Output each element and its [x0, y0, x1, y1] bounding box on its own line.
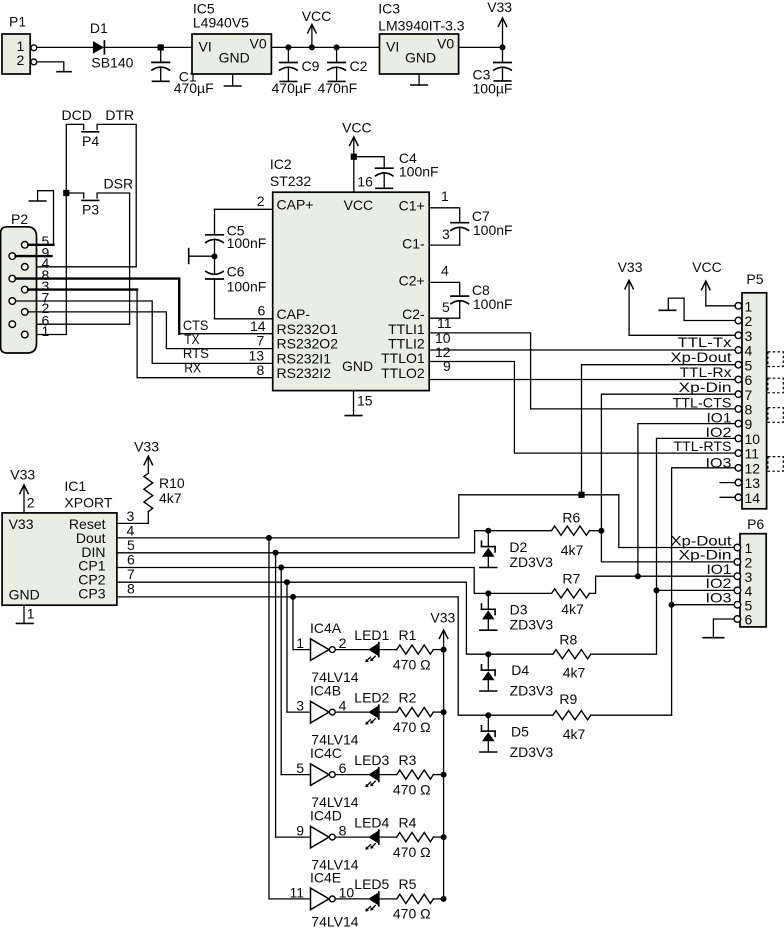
svg-text:V33: V33 [134, 438, 159, 454]
svg-text:4: 4 [745, 343, 753, 359]
svg-text:D2: D2 [509, 539, 527, 555]
svg-text:4k7: 4k7 [563, 665, 586, 681]
svg-text:8: 8 [339, 823, 347, 839]
svg-text:V0: V0 [250, 36, 267, 52]
svg-text:RS232O1: RS232O1 [277, 321, 339, 337]
svg-text:IC4A: IC4A [310, 620, 342, 636]
svg-text:P5: P5 [746, 271, 763, 287]
svg-text:C1+: C1+ [399, 198, 425, 214]
svg-text:IC1: IC1 [64, 478, 86, 494]
svg-text:470µF: 470µF [272, 80, 312, 96]
svg-text:R6: R6 [562, 510, 580, 526]
svg-text:2: 2 [745, 313, 753, 329]
svg-text:7: 7 [257, 333, 265, 349]
svg-text:4k7: 4k7 [561, 542, 584, 558]
svg-text:RX: RX [184, 359, 202, 375]
svg-text:GND: GND [342, 358, 373, 374]
svg-text:IC4D: IC4D [310, 808, 342, 824]
svg-text:L4940V5: L4940V5 [193, 14, 249, 30]
svg-text:470 Ω: 470 Ω [393, 844, 431, 860]
svg-text:5: 5 [745, 357, 753, 373]
svg-text:9: 9 [296, 823, 304, 839]
svg-text:8: 8 [257, 362, 265, 378]
svg-text:13: 13 [745, 475, 761, 491]
svg-text:14: 14 [250, 318, 266, 334]
svg-text:5: 5 [442, 299, 450, 315]
svg-text:TTLO2: TTLO2 [381, 365, 425, 381]
svg-text:470 Ω: 470 Ω [393, 719, 431, 735]
svg-text:TTL-CTS: TTL-CTS [673, 394, 732, 410]
svg-text:3: 3 [127, 508, 135, 524]
svg-text:C2+: C2+ [399, 273, 425, 289]
svg-text:V33: V33 [10, 466, 35, 482]
svg-text:D3: D3 [510, 602, 528, 618]
svg-text:8: 8 [127, 581, 135, 597]
svg-text:1: 1 [296, 635, 304, 651]
svg-text:CAP-: CAP- [277, 306, 311, 322]
svg-text:GND: GND [219, 49, 250, 65]
svg-text:TTLO1: TTLO1 [381, 350, 425, 366]
svg-text:R4: R4 [399, 814, 417, 830]
svg-text:VCC: VCC [344, 197, 374, 213]
svg-text:11: 11 [437, 315, 452, 331]
svg-text:IO1: IO1 [707, 409, 732, 425]
svg-text:100nF: 100nF [399, 163, 439, 179]
svg-text:3: 3 [745, 328, 753, 344]
svg-text:R8: R8 [559, 631, 577, 647]
svg-text:P2: P2 [11, 211, 28, 227]
svg-text:V0: V0 [437, 36, 454, 52]
svg-text:TTL-Rx: TTL-Rx [680, 364, 732, 380]
svg-text:R2: R2 [399, 689, 417, 705]
svg-text:CP3: CP3 [78, 586, 105, 602]
svg-text:R1: R1 [399, 627, 417, 643]
svg-text:VCC: VCC [342, 120, 372, 136]
svg-text:D1: D1 [90, 20, 108, 36]
svg-text:470 Ω: 470 Ω [393, 906, 431, 922]
svg-text:IC4E: IC4E [310, 869, 341, 885]
svg-text:GND: GND [405, 49, 436, 65]
svg-text:14: 14 [745, 490, 761, 506]
svg-text:2: 2 [17, 52, 25, 68]
svg-text:9: 9 [745, 416, 753, 432]
svg-text:VCC: VCC [302, 8, 332, 24]
svg-text:R10: R10 [159, 475, 185, 491]
svg-text:P4: P4 [82, 133, 99, 149]
svg-text:VI: VI [199, 38, 212, 54]
svg-text:IC4B: IC4B [310, 683, 341, 699]
svg-text:8: 8 [745, 402, 753, 418]
svg-text:D4: D4 [511, 662, 529, 678]
svg-text:470 Ω: 470 Ω [393, 781, 431, 797]
svg-text:6: 6 [745, 612, 753, 628]
svg-text:SB140: SB140 [91, 54, 133, 70]
svg-text:P6: P6 [747, 516, 764, 532]
svg-text:4: 4 [441, 262, 449, 278]
svg-text:R7: R7 [562, 571, 580, 587]
svg-text:VI: VI [386, 38, 399, 54]
svg-text:DCD: DCD [62, 107, 92, 123]
svg-text:4k7: 4k7 [561, 601, 584, 617]
svg-text:V33: V33 [9, 516, 34, 532]
svg-text:4k7: 4k7 [563, 726, 586, 742]
svg-text:V33: V33 [430, 609, 455, 625]
svg-text:Xp-Din: Xp-Din [679, 379, 732, 395]
svg-text:7: 7 [127, 566, 135, 582]
svg-text:TTL-RTS: TTL-RTS [674, 438, 732, 454]
svg-text:LED2: LED2 [354, 689, 389, 705]
svg-text:Xp-Dout: Xp-Dout [671, 349, 732, 365]
svg-text:IO3: IO3 [706, 454, 732, 470]
svg-text:LM3940IT-3.3: LM3940IT-3.3 [378, 18, 465, 34]
svg-text:12: 12 [745, 460, 761, 476]
svg-text:D5: D5 [511, 724, 529, 740]
svg-text:TTLI1: TTLI1 [388, 321, 425, 337]
svg-text:2: 2 [27, 494, 35, 510]
svg-text:LED5: LED5 [354, 876, 389, 892]
svg-text:16: 16 [357, 173, 373, 189]
svg-text:74LV14: 74LV14 [311, 913, 358, 929]
svg-text:ZD3V3: ZD3V3 [510, 683, 554, 699]
svg-text:15: 15 [357, 393, 373, 409]
svg-text:LED1: LED1 [354, 627, 389, 643]
svg-text:C9: C9 [302, 58, 320, 74]
svg-text:3: 3 [296, 698, 304, 714]
svg-text:11: 11 [745, 446, 760, 462]
svg-text:100µF: 100µF [473, 81, 513, 97]
svg-text:7: 7 [745, 387, 753, 403]
svg-text:R5: R5 [399, 876, 417, 892]
svg-text:470 Ω: 470 Ω [393, 656, 431, 672]
svg-text:10: 10 [745, 431, 761, 447]
svg-text:LED3: LED3 [354, 752, 389, 768]
svg-text:100nF: 100nF [227, 235, 267, 251]
svg-text:6: 6 [745, 372, 753, 388]
svg-text:C1-: C1- [402, 235, 425, 251]
svg-text:6: 6 [258, 303, 266, 319]
svg-text:P3: P3 [82, 202, 99, 218]
svg-text:4: 4 [339, 698, 347, 714]
svg-text:DTR: DTR [105, 107, 134, 123]
svg-text:CAP+: CAP+ [277, 196, 314, 212]
svg-text:C2-: C2- [402, 306, 425, 322]
svg-text:IC2: IC2 [270, 156, 292, 172]
svg-text:C6: C6 [227, 263, 245, 279]
svg-text:TTL-Tx: TTL-Tx [678, 334, 732, 350]
svg-text:1: 1 [27, 605, 35, 621]
svg-text:470nF: 470nF [318, 80, 358, 96]
svg-text:LED4: LED4 [354, 814, 389, 830]
svg-text:ZD3V3: ZD3V3 [509, 554, 553, 570]
svg-text:10: 10 [339, 885, 355, 901]
svg-text:IC3: IC3 [378, 0, 400, 16]
svg-text:100nF: 100nF [473, 296, 513, 312]
svg-text:13: 13 [249, 347, 265, 363]
svg-text:100nF: 100nF [473, 222, 513, 238]
svg-text:DSR: DSR [104, 175, 134, 191]
svg-text:V33: V33 [618, 259, 643, 275]
svg-text:C2: C2 [350, 58, 368, 74]
svg-text:2: 2 [257, 193, 265, 209]
svg-text:3: 3 [442, 226, 450, 242]
svg-text:RS232I2: RS232I2 [277, 365, 332, 381]
svg-text:5: 5 [296, 760, 304, 776]
svg-text:1: 1 [42, 323, 50, 339]
svg-text:V33: V33 [487, 0, 512, 15]
svg-text:XPORT: XPORT [64, 494, 112, 510]
svg-text:9: 9 [443, 358, 451, 374]
svg-text:IO3: IO3 [706, 590, 732, 606]
svg-text:ZD3V3: ZD3V3 [510, 744, 554, 760]
svg-text:1: 1 [441, 188, 449, 204]
svg-text:ST232: ST232 [270, 173, 311, 189]
svg-text:470µF: 470µF [174, 80, 214, 96]
svg-text:R9: R9 [559, 691, 577, 707]
svg-text:100nF: 100nF [227, 279, 267, 295]
svg-text:VCC: VCC [692, 259, 722, 275]
svg-text:P1: P1 [9, 13, 26, 29]
svg-text:2: 2 [339, 635, 347, 651]
svg-text:IC4C: IC4C [310, 745, 342, 761]
svg-text:RS232O2: RS232O2 [277, 336, 339, 352]
svg-text:4k7: 4k7 [159, 490, 182, 506]
svg-text:GND: GND [9, 587, 40, 603]
svg-text:11: 11 [289, 885, 304, 901]
svg-text:6: 6 [339, 760, 347, 776]
svg-text:1: 1 [745, 298, 753, 314]
svg-text:ZD3V3: ZD3V3 [510, 617, 554, 633]
svg-text:R3: R3 [399, 752, 417, 768]
